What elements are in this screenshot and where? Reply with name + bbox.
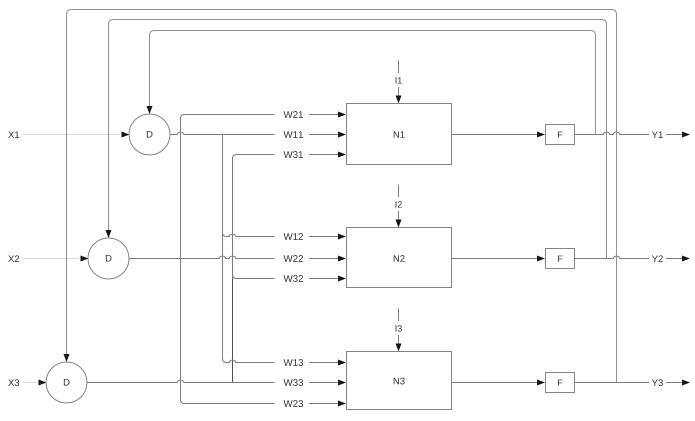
- activation F (row 3): [546, 373, 575, 393]
- neuron N2: [347, 228, 452, 288]
- wire bias I2: [396, 185, 402, 228]
- label I1: [396, 77, 402, 83]
- label W12: [284, 233, 303, 240]
- wire feedback Y1 to D1: [147, 31, 596, 135]
- wire X1 input: [23, 132, 130, 138]
- label Y3: [652, 379, 663, 386]
- wire W32 into N2: [233, 275, 347, 282]
- activation F (row 1): [546, 125, 575, 145]
- delay D2: [88, 238, 129, 279]
- wire Y2 output: [575, 256, 691, 262]
- wire W21 into N1: [181, 112, 347, 119]
- delay D3: [46, 362, 87, 403]
- wire N3 to F: [452, 380, 546, 386]
- label Y2: [652, 255, 663, 262]
- wire N1 to F: [452, 132, 546, 138]
- wire bias I3: [396, 309, 402, 352]
- node X2 label: [8, 255, 19, 262]
- label W21: [284, 111, 303, 118]
- wire feedback Y2 to D2: [106, 20, 607, 259]
- wire W23 into N3: [181, 400, 347, 407]
- label W13: [284, 359, 303, 366]
- wire Y1 output: [575, 132, 691, 138]
- label W23: [284, 400, 303, 407]
- label Y1: [652, 131, 663, 138]
- label I3: [396, 325, 402, 331]
- label W32: [284, 275, 303, 282]
- neuron N1: [347, 104, 452, 165]
- label W33: [284, 379, 303, 386]
- wire X3 input: [23, 380, 47, 386]
- label I2: [396, 201, 402, 207]
- wire Y3 output: [575, 380, 691, 386]
- wire W12 into N2: [223, 233, 347, 240]
- delay D1: [129, 114, 170, 155]
- wire W22 into N2: [129, 256, 346, 262]
- label W31: [284, 151, 303, 158]
- wire W11 into N1: [170, 132, 346, 138]
- wire feedback Y3 to D3: [64, 10, 617, 383]
- node X3 label: [8, 379, 19, 386]
- wire bus V2 from D1 output: [222, 135, 224, 361]
- wire bus V1 from D2 output: [180, 117, 182, 401]
- wire bias I1: [396, 61, 402, 104]
- node X1 label: [8, 131, 19, 138]
- wire W13 into N3: [223, 359, 347, 366]
- wire bus V3 from D3 output: [232, 157, 234, 383]
- wire W31 into N1: [233, 152, 347, 159]
- wire N2 to F: [452, 256, 546, 262]
- wire X2 input: [23, 256, 89, 262]
- label W11: [284, 131, 303, 138]
- activation F (row 2): [546, 249, 575, 269]
- neuron N3: [347, 352, 452, 410]
- wire W33 into N3: [87, 380, 346, 386]
- label W22: [284, 255, 303, 262]
